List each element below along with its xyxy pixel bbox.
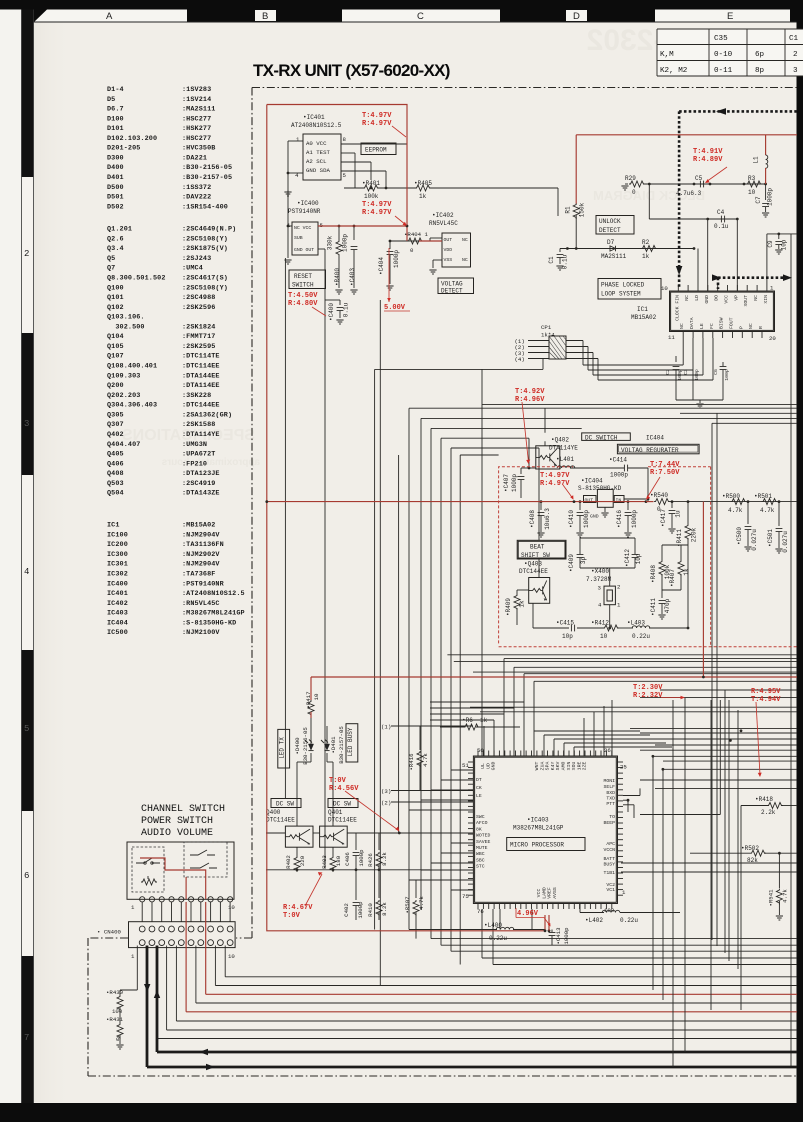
svg-text:4: 4 xyxy=(598,602,602,609)
svg-text:LE: LE xyxy=(699,323,705,329)
svg-text:SKV: SKV xyxy=(555,762,561,771)
svg-text:0.027u: 0.027u xyxy=(782,531,789,553)
svg-text:P: P xyxy=(738,326,744,329)
svg-text:C4: C4 xyxy=(717,209,725,216)
svg-text:3: 3 xyxy=(793,67,798,75)
svg-text:•C417: •C417 xyxy=(660,509,667,527)
svg-text::2SK1875(V): :2SK1875(V) xyxy=(182,245,228,253)
svg-text:SHIFT SW: SHIFT SW xyxy=(521,552,550,559)
svg-text:MONI: MONI xyxy=(603,778,615,784)
svg-text:2: 2 xyxy=(793,51,798,59)
svg-text:Q405: Q405 xyxy=(107,451,124,459)
svg-text:DC SWITCH: DC SWITCH xyxy=(585,434,618,441)
svg-text:2: 2 xyxy=(617,584,621,591)
svg-text:NC: NC xyxy=(679,323,685,329)
svg-text:10p: 10p xyxy=(562,633,573,640)
svg-text:C6: C6 xyxy=(713,369,719,375)
svg-text:Q105: Q105 xyxy=(107,343,124,351)
svg-text:TXD: TXD xyxy=(606,795,615,801)
svg-text:WOTED: WOTED xyxy=(476,833,491,839)
svg-text:Q2.6: Q2.6 xyxy=(107,235,124,243)
svg-text:•D400: •D400 xyxy=(294,737,301,755)
svg-text::DTC114EE: :DTC114EE xyxy=(182,363,220,371)
svg-text:1000p: 1000p xyxy=(342,234,349,252)
svg-text:T:2.30V: T:2.30V xyxy=(633,684,663,692)
svg-text:C9: C9 xyxy=(767,240,774,248)
svg-text:C406: C406 xyxy=(344,852,351,866)
svg-text:MB15A02: MB15A02 xyxy=(631,314,657,321)
svg-text:D201-205: D201-205 xyxy=(107,145,140,153)
svg-text:1000p: 1000p xyxy=(511,474,518,492)
svg-text::1SV283: :1SV283 xyxy=(182,86,211,94)
svg-text:Q100: Q100 xyxy=(107,284,124,292)
svg-text:A0 VCC: A0 VCC xyxy=(306,140,327,147)
svg-text:20: 20 xyxy=(769,335,776,342)
svg-text:WBC: WBC xyxy=(476,851,485,857)
svg-text:Q305: Q305 xyxy=(107,411,124,419)
svg-text:0.1u: 0.1u xyxy=(714,223,729,230)
svg-text:•C414: •C414 xyxy=(609,457,627,464)
svg-text:(4): (4) xyxy=(515,356,525,363)
svg-text:302.500: 302.500 xyxy=(107,323,145,331)
svg-text:R: R xyxy=(758,326,764,329)
svg-text:7.3728M: 7.3728M xyxy=(586,576,612,583)
svg-text:0.027u: 0.027u xyxy=(751,529,758,551)
svg-text:R:4.97V: R:4.97V xyxy=(362,120,392,128)
svg-text:R:4.56V: R:4.56V xyxy=(329,785,359,793)
svg-text:•D401: •D401 xyxy=(330,736,337,754)
svg-text:•C407: •C407 xyxy=(503,474,510,492)
svg-text:8p: 8p xyxy=(755,67,765,75)
svg-text:XOU: XOU xyxy=(571,762,577,771)
svg-text:CHANNEL SWITCH: CHANNEL SWITCH xyxy=(141,804,225,815)
svg-text:D6.7: D6.7 xyxy=(107,106,124,114)
svg-text:1k: 1k xyxy=(642,253,650,260)
svg-text:7: 7 xyxy=(24,1033,29,1043)
svg-text::HSC277: :HSC277 xyxy=(182,135,211,143)
svg-text:0.22u: 0.22u xyxy=(620,917,638,924)
svg-text::TA7368F: :TA7368F xyxy=(182,571,215,579)
svg-text:VCC: VCC xyxy=(536,889,542,898)
svg-text:R2: R2 xyxy=(642,239,650,246)
svg-text:•R407: •R407 xyxy=(669,569,676,587)
svg-text:•C400: •C400 xyxy=(328,303,335,321)
svg-text:T:4.91V: T:4.91V xyxy=(693,148,723,156)
svg-text:VCCN: VCCN xyxy=(603,847,615,853)
svg-text:SWC: SWC xyxy=(476,814,485,820)
svg-text:Q5: Q5 xyxy=(107,255,115,263)
svg-text:R:4.80V: R:4.80V xyxy=(288,300,318,308)
svg-text:TO: TO xyxy=(609,814,615,820)
svg-text::DTC114TE: :DTC114TE xyxy=(182,353,220,361)
svg-text:D101: D101 xyxy=(107,125,124,133)
svg-text:APC: APC xyxy=(606,841,615,847)
svg-text:• CN400: • CN400 xyxy=(97,929,121,936)
svg-text:VCC: VCC xyxy=(724,295,730,304)
svg-text:Q307: Q307 xyxy=(107,421,124,429)
svg-text:100k: 100k xyxy=(364,193,379,200)
svg-text::2SA1362(GR): :2SA1362(GR) xyxy=(182,411,232,419)
svg-text:1: 1 xyxy=(296,136,300,143)
svg-text:NC: NC xyxy=(462,257,468,263)
svg-text:Q1.201: Q1.201 xyxy=(107,226,132,234)
svg-text:(2): (2) xyxy=(381,800,391,807)
svg-text:SPA: SPA xyxy=(545,762,551,771)
svg-text:T:4.97V: T:4.97V xyxy=(362,112,392,120)
svg-text:10: 10 xyxy=(661,285,668,292)
svg-text:•X400: •X400 xyxy=(591,568,609,575)
svg-text::3SK228: :3SK228 xyxy=(182,392,211,400)
svg-text:•Q403: •Q403 xyxy=(524,561,542,568)
svg-text:•R409: •R409 xyxy=(505,598,512,616)
svg-text:VOLTAG: VOLTAG xyxy=(441,281,463,288)
svg-text:T:4.97V: T:4.97V xyxy=(540,472,570,480)
svg-text:•C411: •C411 xyxy=(650,598,657,616)
svg-text:Q108.400.401: Q108.400.401 xyxy=(107,363,157,371)
svg-text::FMMT717: :FMMT717 xyxy=(182,333,215,341)
svg-text:XOUT: XOUT xyxy=(743,295,749,307)
svg-text:0.1u: 0.1u xyxy=(562,254,569,269)
svg-text:DTC114EE: DTC114EE xyxy=(328,817,357,824)
svg-text::DTA123JE: :DTA123JE xyxy=(182,470,220,478)
svg-text:•C413: •C413 xyxy=(555,927,562,945)
svg-text:5: 5 xyxy=(24,724,29,734)
svg-text:CP1: CP1 xyxy=(541,324,552,331)
svg-text:B30-2157-05: B30-2157-05 xyxy=(338,726,345,764)
svg-text:D: D xyxy=(573,11,580,22)
svg-text:Q401: Q401 xyxy=(328,809,343,816)
svg-text:T:0V: T:0V xyxy=(283,912,301,920)
svg-text:GND: GND xyxy=(590,514,599,520)
svg-text:1k: 1k xyxy=(683,568,690,576)
svg-text:5: 5 xyxy=(343,172,347,179)
svg-text::2SK1824: :2SK1824 xyxy=(182,323,215,331)
svg-text:76: 76 xyxy=(477,908,484,915)
svg-text:Q107: Q107 xyxy=(107,353,124,361)
svg-text:R410: R410 xyxy=(367,903,374,917)
svg-text::2SC5108(Y): :2SC5108(Y) xyxy=(182,284,228,292)
svg-text:B30-2156-05: B30-2156-05 xyxy=(302,727,309,765)
svg-text:(1): (1) xyxy=(381,724,391,731)
svg-text:•C408: •C408 xyxy=(529,510,536,528)
svg-text:VP: VP xyxy=(733,295,739,301)
svg-text::2SJ243: :2SJ243 xyxy=(182,255,211,263)
svg-text:26: 26 xyxy=(604,747,611,754)
svg-text:50: 50 xyxy=(477,747,484,754)
svg-text:C5: C5 xyxy=(695,175,703,182)
svg-text::DAV222: :DAV222 xyxy=(182,194,211,202)
svg-text:C402: C402 xyxy=(343,903,350,917)
svg-text:•R540: •R540 xyxy=(650,492,668,499)
svg-text:IC401: IC401 xyxy=(107,590,128,598)
svg-text:MUTE: MUTE xyxy=(476,845,488,851)
svg-text:100: 100 xyxy=(112,1008,123,1015)
svg-text:R:2.32V: R:2.32V xyxy=(633,692,663,700)
svg-text:0: 0 xyxy=(632,189,636,196)
svg-text:Q408: Q408 xyxy=(107,470,124,478)
svg-text:PST9140NR: PST9140NR xyxy=(288,208,321,215)
svg-text:SELF: SELF xyxy=(603,784,615,790)
svg-text:Q406: Q406 xyxy=(107,460,124,468)
svg-text:WNT: WNT xyxy=(534,762,540,771)
svg-text::1SV214: :1SV214 xyxy=(182,96,211,104)
svg-text:•Q402: •Q402 xyxy=(551,437,569,444)
svg-text:IC404: IC404 xyxy=(646,434,664,441)
svg-text:IC403: IC403 xyxy=(107,610,128,618)
svg-text:1000p: 1000p xyxy=(393,250,400,268)
svg-text:D502: D502 xyxy=(107,203,124,211)
svg-text:4.7k: 4.7k xyxy=(728,507,743,514)
svg-text:LOOP SYSTEM: LOOP SYSTEM xyxy=(601,291,641,298)
svg-text:1000p: 1000p xyxy=(610,472,628,479)
svg-text:R:4.97V: R:4.97V xyxy=(362,209,392,217)
svg-text:Q101: Q101 xyxy=(107,294,124,302)
svg-text:NC: NC xyxy=(684,295,690,301)
svg-text:B: B xyxy=(262,11,268,22)
svg-text:IC402: IC402 xyxy=(107,600,128,608)
svg-text:IC500: IC500 xyxy=(107,629,128,637)
svg-text::MB15A02: :MB15A02 xyxy=(182,522,215,530)
svg-text::M38267M8L241GP: :M38267M8L241GP xyxy=(182,610,245,618)
svg-text::UMG3N: :UMG3N xyxy=(182,441,207,449)
svg-text:BEAT: BEAT xyxy=(530,544,545,551)
svg-text:C2: C2 xyxy=(665,369,671,375)
svg-text:R:4.97V: R:4.97V xyxy=(540,480,570,488)
svg-text:D102.103.200: D102.103.200 xyxy=(107,135,157,143)
svg-text:•R541: •R541 xyxy=(768,889,775,907)
svg-text:T:4.50V: T:4.50V xyxy=(288,292,318,300)
svg-text::2SC4617(S): :2SC4617(S) xyxy=(182,275,228,283)
svg-text:LAMD: LAMD xyxy=(541,887,547,899)
svg-text:0-10: 0-10 xyxy=(714,51,733,59)
svg-text:AFCO: AFCO xyxy=(476,820,488,826)
svg-text:1000p: 1000p xyxy=(563,927,570,945)
svg-text:1000p: 1000p xyxy=(583,510,590,528)
svg-text::AT2408N10S12.5: :AT2408N10S12.5 xyxy=(182,590,245,598)
svg-text:UL: UL xyxy=(480,763,486,769)
svg-text:•C409: •C409 xyxy=(568,554,575,572)
svg-text:C: C xyxy=(417,11,424,22)
svg-text:1: 1 xyxy=(131,953,135,960)
svg-text:RN5VL45C: RN5VL45C xyxy=(429,220,458,227)
svg-text:4: 4 xyxy=(24,567,29,577)
svg-text:2: 2 xyxy=(24,249,29,259)
svg-text::2SC4988: :2SC4988 xyxy=(182,294,215,302)
svg-text:Q102: Q102 xyxy=(107,304,124,312)
svg-text::NJM2904V: :NJM2904V xyxy=(182,531,220,539)
svg-text::DTA144EE: :DTA144EE xyxy=(182,372,220,380)
svg-text:MICRO PROCESSOR: MICRO PROCESSOR xyxy=(510,842,564,849)
svg-text:XIN: XIN xyxy=(763,295,769,304)
svg-text:IC300: IC300 xyxy=(107,551,128,559)
svg-text:•R411: •R411 xyxy=(676,529,683,547)
svg-text:1: 1 xyxy=(131,904,135,911)
svg-text:T:4.92V: T:4.92V xyxy=(515,388,545,396)
svg-text:75: 75 xyxy=(462,893,469,900)
svg-text:NC: NC xyxy=(462,237,468,243)
svg-text::UPA672T: :UPA672T xyxy=(182,451,215,459)
svg-text:150k: 150k xyxy=(579,202,586,217)
svg-text:XIN: XIN xyxy=(566,762,572,771)
svg-text:2ZE: 2ZE xyxy=(582,762,588,771)
svg-text:BUSY: BUSY xyxy=(603,862,615,868)
svg-text::UMC4: :UMC4 xyxy=(182,265,203,273)
svg-text::2SC5108(Y): :2SC5108(Y) xyxy=(182,235,228,243)
svg-text:IC400: IC400 xyxy=(107,580,128,588)
svg-text:•IC404: •IC404 xyxy=(581,478,603,485)
svg-text::HVC350B: :HVC350B xyxy=(182,145,215,153)
svg-text:MA2S111: MA2S111 xyxy=(601,253,627,260)
svg-text:10: 10 xyxy=(228,904,235,911)
svg-text:•R500: •R500 xyxy=(722,493,740,500)
svg-text:DETECT: DETECT xyxy=(599,227,621,234)
svg-text:IC100: IC100 xyxy=(107,531,128,539)
svg-text:220k: 220k xyxy=(691,527,698,542)
svg-text:PHASE LOCKED: PHASE LOCKED xyxy=(601,282,645,289)
svg-text:1k: 1k xyxy=(419,193,427,200)
svg-text:•C501: •C501 xyxy=(767,529,774,547)
svg-text:IC302: IC302 xyxy=(107,571,128,579)
svg-text:AT2408N10S12.5: AT2408N10S12.5 xyxy=(291,122,342,129)
svg-text::RN5VL45C: :RN5VL45C xyxy=(182,600,220,608)
svg-text:GND SDA: GND SDA xyxy=(306,167,330,174)
svg-text:•R408: •R408 xyxy=(650,565,657,583)
svg-text:4.7k: 4.7k xyxy=(418,896,425,910)
svg-text::HSC277: :HSC277 xyxy=(182,115,211,123)
svg-text:VREF: VREF xyxy=(547,887,553,899)
svg-text:0.22u: 0.22u xyxy=(489,935,507,942)
svg-text:BISW: BISW xyxy=(719,317,725,329)
svg-text:TX-RX UNIT (X57-6020-XX): TX-RX UNIT (X57-6020-XX) xyxy=(253,61,450,80)
svg-text::NJM2904V: :NJM2904V xyxy=(182,561,220,569)
svg-text:4.7k: 4.7k xyxy=(760,507,775,514)
svg-text:R:4.95V: R:4.95V xyxy=(751,688,781,696)
svg-text::2SK1588: :2SK1588 xyxy=(182,421,215,429)
svg-text:4.7k: 4.7k xyxy=(422,753,429,767)
svg-text:4.96V: 4.96V xyxy=(517,910,539,918)
svg-text:LED BUSY: LED BUSY xyxy=(347,727,354,756)
svg-text:R:7.50V: R:7.50V xyxy=(650,469,680,477)
svg-text:NC VCC: NC VCC xyxy=(294,225,311,231)
svg-text:E: E xyxy=(727,11,733,22)
svg-text:51: 51 xyxy=(462,762,469,769)
svg-text:•IC402: •IC402 xyxy=(432,212,454,219)
svg-text:D400: D400 xyxy=(107,164,124,172)
svg-text:K,M: K,M xyxy=(660,51,674,59)
svg-text:L1: L1 xyxy=(753,156,760,164)
svg-text:GND: GND xyxy=(491,762,497,771)
svg-text:Q104: Q104 xyxy=(107,333,124,341)
svg-text:DT: DT xyxy=(476,777,482,783)
svg-text:10: 10 xyxy=(600,633,608,640)
svg-text:100p: 100p xyxy=(677,369,683,381)
svg-text:Q503: Q503 xyxy=(107,480,124,488)
svg-text:8K: 8K xyxy=(476,826,482,832)
svg-text::B30-2157-05: :B30-2157-05 xyxy=(182,174,232,182)
svg-text:approximately hours: approximately hours xyxy=(161,457,260,468)
svg-text:•C500: •C500 xyxy=(736,527,743,545)
svg-text:A1 TEST: A1 TEST xyxy=(306,149,330,156)
svg-text:FOUT: FOUT xyxy=(729,317,735,329)
svg-text::2SC4919: :2SC4919 xyxy=(182,480,215,488)
svg-text:•R416: •R416 xyxy=(408,753,415,771)
svg-text:C1: C1 xyxy=(789,35,799,43)
svg-text:IC200: IC200 xyxy=(107,541,128,549)
svg-text:R:4.96V: R:4.96V xyxy=(515,396,545,404)
svg-text:470p: 470p xyxy=(664,598,671,613)
svg-text:CK: CK xyxy=(476,785,482,791)
svg-text:Q200: Q200 xyxy=(107,382,124,390)
svg-text:Q3.4: Q3.4 xyxy=(107,245,124,253)
svg-text:1000p: 1000p xyxy=(631,510,638,528)
svg-text:DO: DO xyxy=(714,295,720,301)
svg-text:Q202.203: Q202.203 xyxy=(107,392,140,400)
svg-text:R403: R403 xyxy=(321,855,328,869)
svg-text:Q7: Q7 xyxy=(107,265,115,273)
svg-text:180: 180 xyxy=(335,855,342,866)
svg-text::NJM2100V: :NJM2100V xyxy=(182,629,220,637)
svg-text:C7: C7 xyxy=(755,196,762,204)
svg-text:LD: LD xyxy=(694,295,700,301)
svg-text:10p: 10p xyxy=(781,239,788,250)
svg-text:1k*4: 1k*4 xyxy=(541,332,555,339)
svg-text:Q504: Q504 xyxy=(107,490,124,498)
svg-text:PTT: PTT xyxy=(606,801,615,807)
svg-text:D5: D5 xyxy=(107,96,115,104)
svg-text:10u6.3: 10u6.3 xyxy=(544,508,551,530)
svg-text:R402: R402 xyxy=(285,855,292,869)
svg-text:•C416: •C416 xyxy=(616,510,623,528)
svg-text::2SK2596: :2SK2596 xyxy=(182,304,215,312)
svg-text:0: 0 xyxy=(657,506,661,513)
svg-text::FP210: :FP210 xyxy=(182,460,207,468)
svg-text:S-81350HG-KD: S-81350HG-KD xyxy=(578,485,622,492)
svg-text:R:4.67V: R:4.67V xyxy=(283,904,313,912)
svg-text:8: 8 xyxy=(343,136,347,143)
svg-text:8.2k: 8.2k xyxy=(381,852,388,866)
svg-text:1000p: 1000p xyxy=(358,849,365,867)
svg-text:POWER SWITCH: POWER SWITCH xyxy=(141,816,213,827)
svg-text::1SS372: :1SS372 xyxy=(182,184,211,192)
svg-text:FC: FC xyxy=(709,323,715,329)
svg-text:GND OUT: GND OUT xyxy=(294,247,314,253)
svg-text:•R400: •R400 xyxy=(334,268,341,286)
svg-text:SUB: SUB xyxy=(294,235,303,241)
svg-text:Q8.300.501.502: Q8.300.501.502 xyxy=(107,275,166,283)
svg-text:T1B1: T1B1 xyxy=(603,870,615,876)
svg-text::S-81350HG-KD: :S-81350HG-KD xyxy=(182,619,236,627)
svg-text::1SR154-400: :1SR154-400 xyxy=(182,203,228,211)
svg-text::DTC144EE: :DTC144EE xyxy=(182,402,220,410)
svg-text:C1: C1 xyxy=(548,256,555,264)
svg-text:M38267M8L241GP: M38267M8L241GP xyxy=(513,825,564,832)
svg-text:CLOCK FIN: CLOCK FIN xyxy=(674,295,680,321)
svg-text:0.1u: 0.1u xyxy=(343,302,350,317)
svg-text:1: 1 xyxy=(622,889,626,896)
svg-text:DTC114EE: DTC114EE xyxy=(266,817,295,824)
svg-text:3: 3 xyxy=(598,585,602,592)
svg-text:D500: D500 xyxy=(107,184,124,192)
svg-text:DC SW: DC SW xyxy=(276,801,294,808)
svg-text:10: 10 xyxy=(313,693,320,700)
svg-text:DTC144EE: DTC144EE xyxy=(519,568,548,575)
svg-text:100p: 100p xyxy=(694,369,700,381)
svg-text:T:0V: T:0V xyxy=(329,777,347,785)
svg-text:Q400: Q400 xyxy=(266,809,281,816)
svg-text:6p: 6p xyxy=(755,51,765,59)
svg-text:10: 10 xyxy=(228,953,235,960)
svg-text:LED TX: LED TX xyxy=(279,737,286,759)
